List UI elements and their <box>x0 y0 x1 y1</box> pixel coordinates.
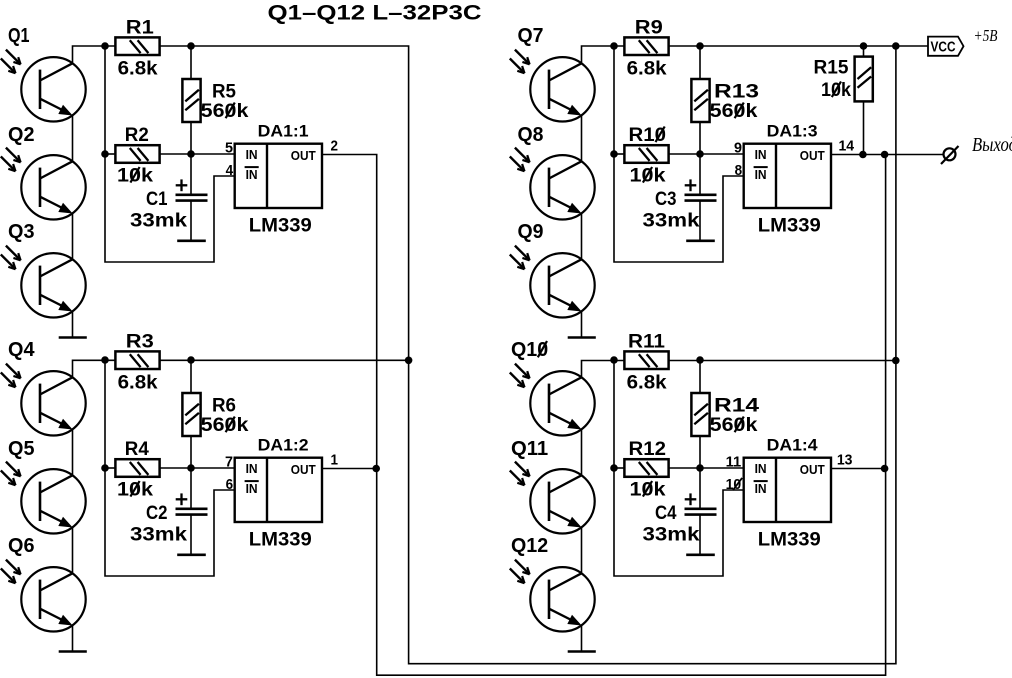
node junction dots <box>101 42 195 158</box>
wire R14 bottom lead <box>699 436 701 468</box>
svg-text:OUT: OUT <box>800 148 825 163</box>
wire R13 top lead <box>699 46 701 79</box>
phototransistor Q6 <box>21 567 85 631</box>
svg-text:1: 1 <box>331 452 339 468</box>
svg-text:R4: R4 <box>125 439 149 460</box>
node junction dots <box>610 356 704 472</box>
svg-text:Q3: Q3 <box>8 221 35 243</box>
light arrows into Q1 <box>1 50 21 74</box>
light arrows into Q12 <box>510 560 530 584</box>
phototransistor Q11 <box>530 469 594 533</box>
svg-text:6.8k: 6.8k <box>118 59 158 80</box>
resistor R11 <box>624 351 668 369</box>
ground under C3 <box>688 240 714 243</box>
svg-text:C1: C1 <box>146 189 168 210</box>
svg-text:5: 5 <box>225 140 233 156</box>
junction dot R15 bottom on output <box>859 151 867 159</box>
svg-text:+5В: +5В <box>974 26 998 45</box>
wire Q2 emitter to Q3 collector <box>72 213 74 259</box>
capacitor C2 <box>176 493 208 514</box>
light arrows into Q9 <box>510 246 530 270</box>
junction dot output bus block4 <box>881 465 889 473</box>
wire R10 to comparator pin 9 <box>669 153 744 155</box>
capacitor C4 <box>685 493 717 514</box>
resistor R12 <box>624 459 668 477</box>
phototransistor Q7 <box>530 57 594 121</box>
svg-text:IN: IN <box>246 461 258 476</box>
svg-text:IN: IN <box>755 167 767 182</box>
svg-text:Q7: Q7 <box>518 25 544 47</box>
ground under Q6 <box>60 650 86 653</box>
svg-text:Q6: Q6 <box>8 535 35 557</box>
svg-text:33mk: 33mk <box>130 525 187 546</box>
junction dot hysteresis bus / block2 rail <box>405 357 413 365</box>
wire pin 4 feedback to node column <box>105 46 235 262</box>
wire C1 bottom lead <box>190 201 192 241</box>
junction dot outputs bus block2 <box>372 465 380 473</box>
svg-text:R1: R1 <box>126 17 154 38</box>
wire DA1:2 output pin 1 to bus <box>322 468 376 470</box>
resistor R1 <box>115 37 159 55</box>
wire DA1:4 output pin 13 to output bus <box>831 468 884 470</box>
light arrows into Q6 <box>1 560 21 584</box>
svg-text:LM339: LM339 <box>758 216 821 237</box>
svg-text:DA1:3: DA1:3 <box>767 121 818 140</box>
svg-text:R2: R2 <box>125 125 149 146</box>
wire pin 8 feedback to node column <box>614 46 744 262</box>
wire R2 row <box>105 153 115 155</box>
wire DA1:3 output pin 14 to output terminal <box>831 154 944 156</box>
wire R5 top lead <box>190 46 192 79</box>
svg-text:R13: R13 <box>714 81 759 102</box>
resistor R2 <box>115 145 159 163</box>
light arrows into Q4 <box>1 364 21 388</box>
wire Q4 emitter to Q5 collector <box>72 429 74 475</box>
light arrows into Q5 <box>1 462 21 486</box>
resistor R5 <box>182 79 200 122</box>
svg-text:7: 7 <box>225 454 233 470</box>
junction dot block4 rail / VCC drop <box>892 357 900 365</box>
light arrows into Q3 <box>1 246 21 270</box>
svg-text:DA1:1: DA1:1 <box>258 121 309 140</box>
svg-text:R14: R14 <box>714 395 760 416</box>
wire Q11 emitter to Q12 collector <box>581 527 583 573</box>
capacitor C1 <box>176 179 208 200</box>
junction dot output node <box>881 151 889 159</box>
svg-text:R9: R9 <box>635 17 663 38</box>
ground under Q3 <box>60 336 86 339</box>
op-amp comparator DA1:1 (LM339 section) <box>235 144 322 208</box>
svg-text:Q12: Q12 <box>511 535 548 557</box>
wire C4 bottom lead <box>699 515 701 555</box>
wire Q7 collector to R9, VCC rail of block 3 <box>582 46 625 64</box>
junction dot R15 top on VCC rail <box>860 42 868 50</box>
wire C2 top lead <box>190 468 192 509</box>
svg-text:R12: R12 <box>629 439 667 460</box>
light arrows into Q11 <box>510 462 530 486</box>
wire Q1 emitter to Q2 collector <box>72 115 74 161</box>
wire R2 to comparator pin 5 <box>160 153 235 155</box>
resistor R9 <box>624 37 668 55</box>
svg-text:560k: 560k <box>201 101 249 122</box>
svg-text:Q2: Q2 <box>8 124 35 146</box>
wire R15 top lead <box>863 46 865 57</box>
wire C2 bottom lead <box>190 515 192 555</box>
svg-text:C2: C2 <box>146 503 168 524</box>
wire DA1:1 output pin 2 bus down, across bottom, up to output node <box>322 155 886 676</box>
svg-text:R3: R3 <box>126 331 154 352</box>
svg-text:2: 2 <box>331 138 339 154</box>
wire C3 bottom lead <box>699 201 701 241</box>
wire Q9 emitter to ground <box>581 311 583 337</box>
svg-text:IN: IN <box>755 461 767 476</box>
svg-text:Q8: Q8 <box>518 124 544 146</box>
svg-text:14: 14 <box>839 138 855 154</box>
light arrows into Q8 <box>510 148 530 172</box>
wire pin 10 feedback to node column <box>614 360 744 576</box>
svg-text:6.8k: 6.8k <box>627 373 667 394</box>
svg-text:Q9: Q9 <box>518 221 544 243</box>
svg-text:LM339: LM339 <box>249 216 312 237</box>
svg-text:OUT: OUT <box>800 462 825 477</box>
svg-text:10: 10 <box>726 477 742 493</box>
light arrows into Q10 <box>510 364 530 388</box>
svg-text:13: 13 <box>837 452 853 468</box>
svg-text:VCC: VCC <box>931 40 956 56</box>
svg-text:LM339: LM339 <box>758 530 821 551</box>
svg-text:6.8k: 6.8k <box>627 59 667 80</box>
svg-text:Выход: Выход <box>972 134 1012 156</box>
op-amp comparator DA1:4 (LM339 section) <box>744 458 831 522</box>
resistor R14 <box>691 393 709 436</box>
svg-text:R15: R15 <box>814 58 849 79</box>
resistor R13 <box>691 79 709 122</box>
wire R6 top lead <box>190 360 192 393</box>
wire R13 bottom lead <box>699 122 701 154</box>
wire R12 row <box>614 467 624 469</box>
resistor R4 <box>115 459 159 477</box>
svg-text:560k: 560k <box>710 415 758 436</box>
wire R9 right along VCC rail to VCC symbol <box>669 45 928 47</box>
svg-text:IN: IN <box>246 147 258 162</box>
svg-text:LM339: LM339 <box>249 530 312 551</box>
svg-text:R5: R5 <box>212 81 236 102</box>
wire R11 right rail to VCC drop junction <box>669 360 896 362</box>
svg-text:R11: R11 <box>628 331 665 352</box>
wire R15 bottom lead <box>863 101 865 154</box>
resistor R3 <box>115 351 159 369</box>
svg-text:9: 9 <box>734 140 742 156</box>
light arrows into Q2 <box>1 148 21 172</box>
resistor R10 <box>624 145 668 163</box>
wire C1 top lead <box>190 154 192 195</box>
svg-text:DA1:2: DA1:2 <box>258 435 309 454</box>
svg-text:6: 6 <box>226 477 234 493</box>
svg-text:OUT: OUT <box>291 148 316 163</box>
wire Q8 emitter to Q9 collector <box>581 213 583 259</box>
VCC power symbol <box>928 37 964 56</box>
ground under Q9 <box>569 336 595 339</box>
svg-text:Q1–Q12 L–32P3C: Q1–Q12 L–32P3C <box>268 2 482 25</box>
wire Q3 emitter to ground <box>72 311 74 337</box>
wire C3 top lead <box>699 154 701 195</box>
wire R4 to comparator pin 7 <box>160 467 235 469</box>
wire Q6 emitter to ground <box>72 625 74 651</box>
ground under Q12 <box>569 650 595 653</box>
wire R10 row <box>614 153 624 155</box>
svg-text:Q5: Q5 <box>8 438 35 460</box>
output terminal symbol <box>941 146 959 164</box>
svg-text:Q1: Q1 <box>8 25 30 47</box>
wire R14 top lead <box>699 360 701 393</box>
svg-text:IN: IN <box>246 481 258 496</box>
svg-text:560k: 560k <box>710 101 758 122</box>
phototransistor Q3 <box>21 253 85 317</box>
svg-text:OUT: OUT <box>291 462 316 477</box>
svg-text:IN: IN <box>755 147 767 162</box>
light arrows into Q7 <box>510 50 530 74</box>
phototransistor Q12 <box>530 567 594 631</box>
phototransistor Q5 <box>21 469 85 533</box>
phototransistor Q10 <box>530 371 594 435</box>
capacitor C3 <box>685 179 717 200</box>
wire pin 6 feedback to node column <box>105 360 235 576</box>
wire Q4 collector to R3 rail of block 2 <box>73 360 116 377</box>
ground under C2 <box>179 553 205 556</box>
svg-text:C3: C3 <box>655 189 677 210</box>
wire R4 row <box>105 467 115 469</box>
svg-text:R6: R6 <box>212 395 236 416</box>
svg-text:33mk: 33mk <box>130 211 187 232</box>
resistor R6 <box>182 393 200 436</box>
wire Q5 emitter to Q6 collector <box>72 527 74 573</box>
wire R1 right node bus down, across bottom, up to VCC rail <box>160 46 896 664</box>
svg-text:IN: IN <box>246 167 258 182</box>
ground under C4 <box>688 553 714 556</box>
phototransistor Q4 <box>21 371 85 435</box>
wire Q7 emitter to Q8 collector <box>581 115 583 161</box>
wire Q1 collector to R1, rail of block 1 <box>73 46 116 64</box>
wire C4 top lead <box>699 468 701 509</box>
wire Q10 emitter to Q11 collector <box>581 429 583 475</box>
wire R6 bottom lead <box>190 436 192 468</box>
svg-text:33mk: 33mk <box>643 525 700 546</box>
phototransistor Q2 <box>21 155 85 219</box>
op-amp comparator DA1:2 (LM339 section) <box>235 458 322 522</box>
phototransistor Q1 <box>21 57 85 121</box>
svg-text:DA1:4: DA1:4 <box>767 435 819 454</box>
wire Q10 collector to R11 rail of block 4 <box>582 361 625 378</box>
wire R5 bottom lead <box>190 122 192 154</box>
svg-text:Q4: Q4 <box>8 339 35 361</box>
svg-text:6.8k: 6.8k <box>118 373 158 394</box>
phototransistor Q8 <box>530 155 594 219</box>
wire Q12 emitter to ground <box>581 625 583 651</box>
svg-text:11: 11 <box>726 454 742 470</box>
svg-text:C4: C4 <box>655 503 677 524</box>
node junction dots <box>610 42 704 158</box>
svg-text:560k: 560k <box>201 415 249 436</box>
op-amp comparator DA1:3 (LM339 section) <box>744 144 831 208</box>
wire R3 right to hysteresis bus junction <box>160 359 409 361</box>
svg-text:Q11: Q11 <box>511 438 548 460</box>
resistor R15 <box>855 57 873 102</box>
svg-text:IN: IN <box>755 481 767 496</box>
svg-text:33mk: 33mk <box>643 211 700 232</box>
node junction dots <box>101 356 195 472</box>
ground under C1 <box>179 240 205 243</box>
phototransistor Q9 <box>530 253 594 317</box>
junction dot VCC drop on rail <box>892 42 900 50</box>
wire R12 to comparator pin 11 <box>669 467 744 469</box>
